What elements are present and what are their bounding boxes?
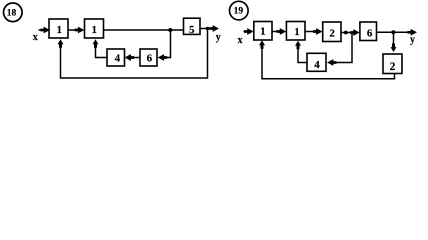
- wire B6 to B4: [133, 57, 140, 59]
- wire R3 to R6: [341, 32, 351, 34]
- arrowhead down into top of block R2B: [391, 44, 397, 53]
- block R2B value 2: [383, 54, 402, 74]
- arrowhead into block R6: [350, 29, 360, 36]
- block B2 value 1: [85, 19, 104, 38]
- block B5 value 5: [184, 18, 201, 36]
- arrowhead into block R2: [277, 28, 287, 35]
- wire input x to block B1: [39, 29, 45, 31]
- arrowhead into block R1: [244, 28, 254, 35]
- svg-text:6: 6: [367, 28, 373, 40]
- block R6 value 6: [360, 22, 377, 41]
- block R4 value 4: [307, 53, 326, 71]
- wire outer feedback loop (y tap to bottom of B1): [61, 29, 208, 79]
- svg-text:19: 19: [234, 6, 244, 16]
- arrowhead into block B1: [40, 27, 50, 34]
- wire B1 to B2: [68, 29, 76, 31]
- wire J3 down to block R2B: [393, 32, 395, 44]
- svg-text:4: 4: [115, 53, 121, 65]
- arrowhead into right side of block R4: [327, 59, 337, 66]
- arrowhead output y of diagram 19: [407, 29, 417, 36]
- arrowhead up into bottom of B2: [93, 39, 99, 48]
- arrowhead into block B2: [75, 27, 85, 34]
- svg-text:1: 1: [56, 24, 62, 36]
- wire R1 to R2: [272, 31, 278, 33]
- svg-text:4: 4: [314, 59, 320, 71]
- svg-text:1: 1: [295, 27, 300, 38]
- svg-text:18: 18: [7, 9, 17, 19]
- arrowhead into right side of block B6: [158, 54, 168, 61]
- wire B4 up into bottom of B2: [96, 47, 108, 58]
- wire R6 to output y: [377, 31, 409, 33]
- svg-text:5: 5: [189, 24, 195, 36]
- svg-text:6: 6: [147, 53, 153, 65]
- wire bottom feedback loop R2B to bottom of R1: [262, 47, 395, 79]
- svg-text:x: x: [238, 35, 243, 46]
- node junction J2 after R3: [344, 31, 348, 35]
- block R1 value 1: [254, 22, 272, 41]
- node junction J1 on wire B2-B5: [168, 28, 172, 32]
- block R3 value 2: [323, 22, 341, 42]
- wire R4 up into bottom of R2: [298, 47, 307, 63]
- svg-text:y: y: [410, 35, 415, 46]
- block B1 value 1: [49, 19, 68, 38]
- svg-text:2: 2: [329, 28, 335, 40]
- block B4 value 4: [107, 49, 125, 66]
- arrowhead up into bottom of B1: [58, 39, 64, 48]
- node junction J3 after R6: [391, 30, 395, 34]
- svg-text:1: 1: [92, 24, 98, 36]
- svg-text:x: x: [33, 32, 38, 43]
- wire input x to block R1: [244, 31, 248, 33]
- svg-text:y: y: [216, 32, 221, 43]
- arrowhead output y: [209, 25, 219, 32]
- wire B2 to B5: [104, 29, 185, 31]
- block R2 value 1: [286, 22, 305, 41]
- wire tap from J2 down to block R4: [335, 33, 352, 63]
- wire inner tap J1 down to block B6: [166, 30, 171, 58]
- block B6 value 6: [140, 49, 157, 66]
- arrowhead up into bottom of R2: [295, 41, 301, 50]
- arrowhead up into bottom of R1: [259, 40, 265, 49]
- wire B5 to output y: [201, 28, 212, 30]
- arrowhead into right side of block B4: [125, 54, 135, 61]
- wire R2 to R3: [305, 31, 314, 33]
- svg-text:2: 2: [390, 61, 396, 73]
- arrowhead into block R3: [313, 28, 323, 35]
- node output tap dot: [206, 27, 209, 30]
- problem number circle 18: [4, 3, 23, 22]
- svg-text:1: 1: [260, 25, 266, 37]
- problem number circle 19: [230, 1, 249, 20]
